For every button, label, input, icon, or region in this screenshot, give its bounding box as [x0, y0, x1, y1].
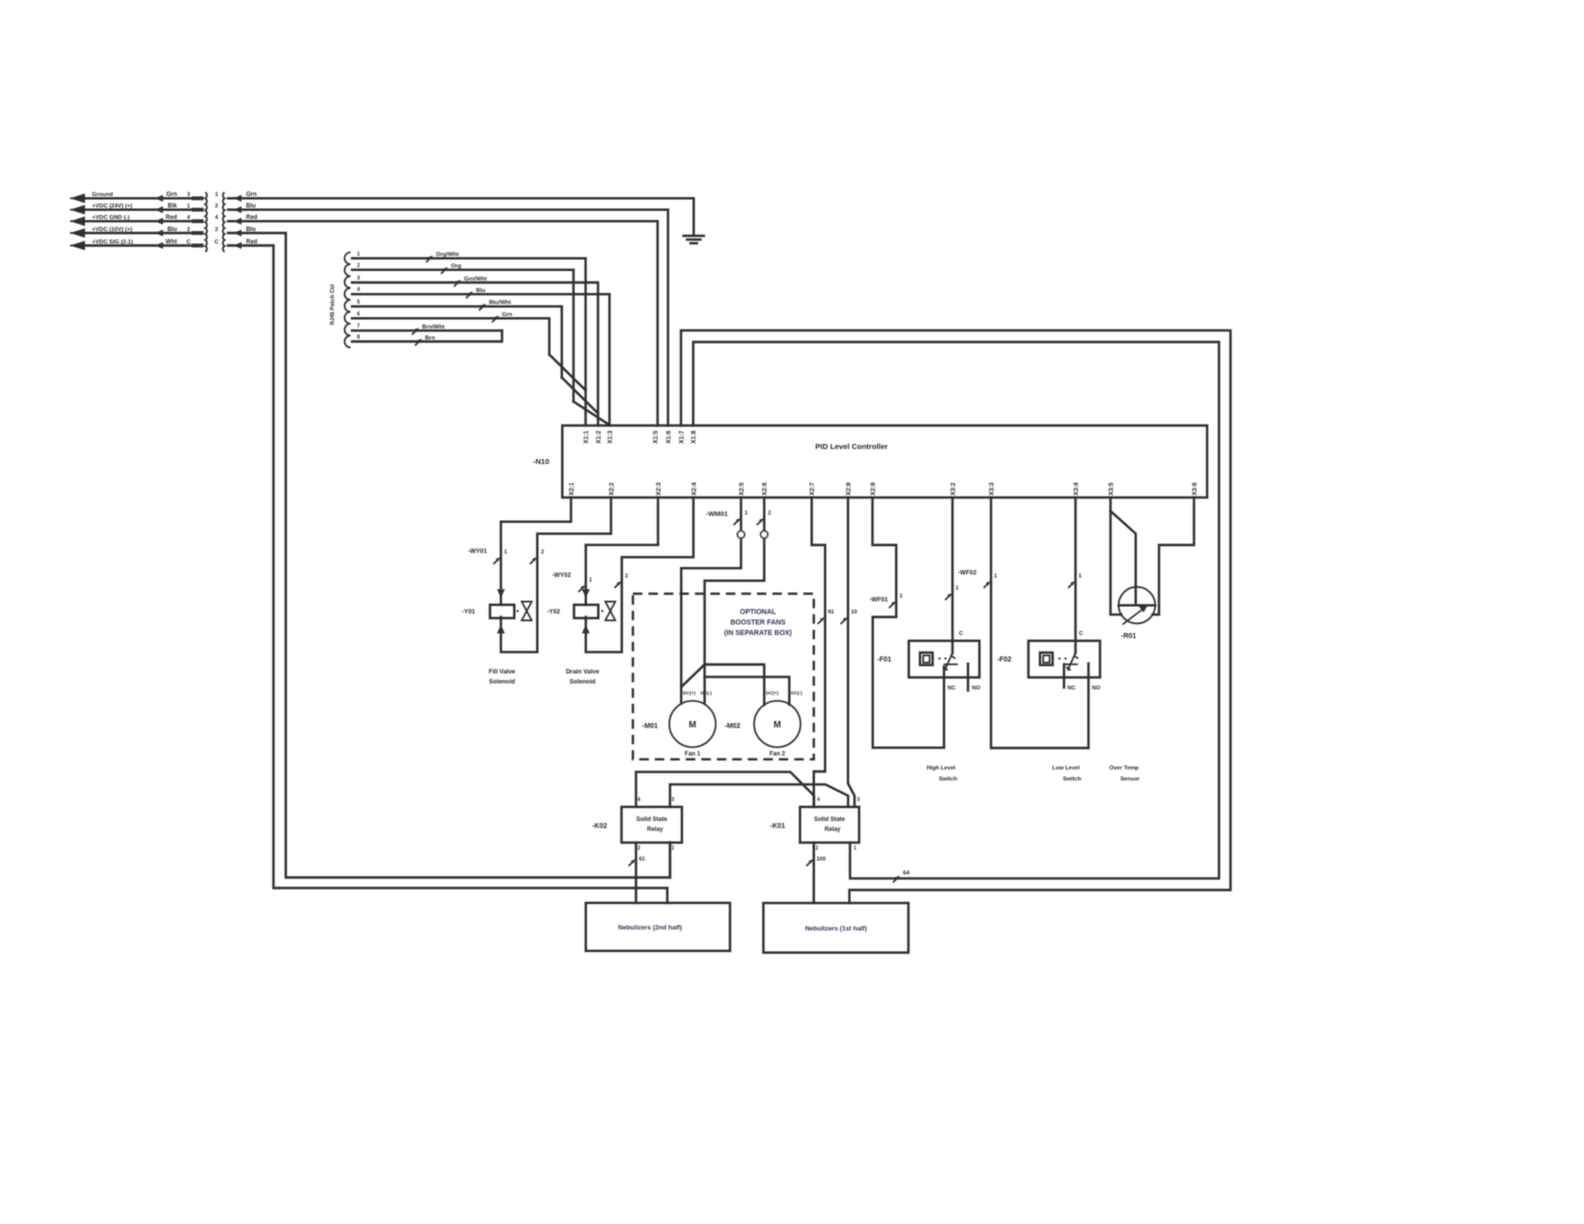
svg-text:X1:6: X1:6	[665, 430, 672, 444]
svg-text:1: 1	[994, 574, 997, 580]
node arrow row 2	[70, 205, 85, 215]
svg-text:OPTIONAL: OPTIONAL	[740, 609, 777, 616]
arrow into Y02 bottom	[582, 625, 590, 634]
float symbol F01	[920, 653, 933, 665]
svg-text:NO: NO	[1092, 686, 1101, 692]
wire +VDC SIG (2-1) left segment	[80, 244, 192, 246]
svg-text:Solenoid: Solenoid	[489, 679, 515, 686]
svg-text:5: 5	[357, 299, 360, 305]
svg-text:4: 4	[817, 797, 820, 803]
wire marker pin 7	[412, 328, 419, 335]
svg-text:Blu: Blu	[476, 288, 486, 294]
wire Y01 return to X2:2	[501, 498, 611, 653]
svg-text:Blu: Blu	[167, 227, 177, 233]
pin NO F01 stub	[967, 664, 969, 691]
svg-text:X3:3: X3:3	[988, 482, 995, 496]
svg-text:Relay: Relay	[824, 827, 841, 833]
node arrow row 4	[70, 228, 85, 238]
pin NC F02 stub	[1063, 664, 1065, 687]
wire marker 1 WY02	[578, 585, 585, 592]
svg-text:1: 1	[672, 846, 675, 852]
connector X9 shell	[345, 252, 351, 347]
svg-text:C: C	[959, 631, 963, 637]
svg-text:1: 1	[357, 251, 360, 257]
svg-text:X2:3: X2:3	[655, 482, 662, 496]
svg-text:X1:2: X1:2	[595, 430, 602, 444]
connector X0 contact bar row 2	[192, 208, 204, 212]
svg-text:X2:8: X2:8	[845, 482, 852, 496]
wire X3:6 to R01 right	[1153, 498, 1195, 615]
svg-text:C: C	[215, 239, 219, 245]
svg-text:X2:2: X2:2	[608, 482, 615, 496]
svg-text:C: C	[1079, 631, 1083, 637]
svg-text:(IN SEPARATE BOX): (IN SEPARATE BOX)	[724, 630, 792, 637]
svg-text:Blk: Blk	[168, 204, 178, 210]
wire X2:7 to K01 pin4	[812, 498, 825, 807]
wire direction marks row 1	[155, 195, 163, 202]
switch blade F02	[1068, 653, 1076, 671]
svg-text:3: 3	[857, 797, 860, 803]
wire marker 91	[818, 617, 825, 624]
wire direction marks row 4	[155, 230, 163, 237]
wire marker 2 WY02	[614, 581, 621, 588]
svg-text:Switch: Switch	[939, 777, 958, 783]
svg-text:Drain Valve: Drain Valve	[566, 669, 600, 676]
wire bus K02 pin4 to K01 pin4	[636, 772, 814, 807]
relay K01 box	[800, 807, 859, 843]
node arrow row 1	[70, 194, 85, 204]
wire marker 2 WM01	[757, 518, 764, 525]
svg-text:Fan 2: Fan 2	[769, 752, 785, 758]
svg-text:Solid State: Solid State	[814, 817, 846, 823]
wire bus K02 pin3 to K01 pin3	[670, 784, 848, 807]
valve symbol Y02	[601, 610, 603, 612]
svg-text:4: 4	[357, 287, 360, 293]
svg-text:X2:7: X2:7	[809, 482, 816, 496]
motor M02	[754, 701, 800, 747]
svg-text:-M01: -M01	[642, 723, 658, 730]
svg-text:-WY01: -WY01	[468, 548, 487, 555]
svg-text:1: 1	[589, 578, 592, 584]
float switch F02 box	[1028, 641, 1100, 678]
svg-text:-M02: -M02	[725, 723, 741, 730]
svg-text:X1:8: X1:8	[691, 430, 698, 444]
temp sensor R01	[1119, 587, 1156, 624]
wire Blu/Wht pin5	[352, 306, 562, 377]
svg-text:1: 1	[854, 846, 857, 852]
svg-text:3: 3	[357, 276, 360, 282]
svg-text:64: 64	[903, 871, 910, 877]
svg-text:X1:7: X1:7	[678, 430, 685, 444]
svg-text:+VDC (10V) (+): +VDC (10V) (+)	[92, 227, 132, 233]
node arrow row 3	[70, 216, 85, 226]
svg-text:X2:4: X2:4	[691, 482, 698, 496]
svg-text:X2:6: X2:6	[762, 482, 769, 496]
connector X0 contact bar row 3	[192, 219, 204, 223]
svg-text:1: 1	[504, 550, 507, 556]
svg-text:+VDC SIG (2-1): +VDC SIG (2-1)	[92, 239, 133, 245]
svg-text:1: 1	[1079, 574, 1082, 580]
svg-text:-WY02: -WY02	[552, 572, 571, 579]
svg-text:High Level: High Level	[927, 766, 956, 772]
wire marker 1 X3:3	[984, 581, 991, 588]
svg-text:2: 2	[768, 511, 771, 517]
svg-text:X3:2: X3:2	[950, 482, 957, 496]
booster fans enclosure dashed box	[633, 594, 814, 760]
svg-text:X2:9: X2:9	[870, 482, 877, 496]
svg-text:2: 2	[215, 227, 218, 233]
wire marker 1 WY01	[494, 557, 501, 564]
node arrow row 5	[70, 241, 85, 251]
ground symbol	[684, 235, 704, 237]
wire direction marks row 3	[155, 218, 163, 225]
arrow into Y01 top	[497, 589, 505, 598]
svg-text:PID Level Controller: PID Level Controller	[815, 442, 888, 451]
wire X3:3 to F02 NO	[991, 498, 1089, 749]
wire marker 1 X3:4	[1068, 581, 1075, 588]
svg-text:2: 2	[541, 550, 544, 556]
solenoid Y02 coil	[574, 605, 598, 618]
svg-text:Grn: Grn	[502, 312, 513, 318]
svg-text:X3:6: X3:6	[1191, 482, 1198, 496]
svg-text:-WM01: -WM01	[706, 511, 728, 518]
wire +VDC GND (-) left segment	[80, 220, 192, 222]
svg-text:4: 4	[638, 797, 641, 803]
wire crossover Grn to X1:1 column	[549, 355, 585, 391]
wire X3:4 to F02 C	[1074, 498, 1076, 653]
arrow into Y01 bottom	[497, 625, 505, 634]
wire Blu pin4 to X1:3	[352, 294, 610, 425]
bulkhead connector WM01 wire1	[737, 531, 744, 538]
wire X1:8 loop to K01 pin1	[693, 342, 1219, 878]
svg-text:Wht: Wht	[166, 239, 177, 245]
svg-text:Fill Valve: Fill Valve	[489, 669, 516, 676]
svg-text:Red: Red	[166, 215, 178, 221]
wire K02 pin1 stub	[669, 843, 671, 878]
svg-text:X1:1: X1:1	[583, 430, 590, 444]
wire marker pin 5	[479, 304, 486, 311]
wire X2:6 to fans DC- rail	[705, 498, 765, 704]
wire marker 2 WY01	[530, 557, 537, 564]
svg-text:X3:4: X3:4	[1073, 482, 1080, 496]
svg-text:2: 2	[625, 574, 628, 580]
svg-text:C: C	[187, 239, 191, 245]
svg-text:2: 2	[357, 263, 360, 269]
wire X3:5 branch to R01 top	[1111, 511, 1136, 605]
svg-text:Ground: Ground	[92, 192, 113, 198]
relay K02 box	[622, 807, 682, 843]
svg-text:1: 1	[215, 192, 218, 198]
svg-text:1: 1	[187, 204, 190, 210]
svg-text:8: 8	[357, 335, 360, 341]
svg-text:2: 2	[215, 204, 218, 210]
wire Grn/Wht pin3 to X1:2	[352, 283, 598, 426]
svg-text:NC: NC	[1068, 686, 1076, 692]
wire marker 1 WM01	[734, 518, 741, 525]
connector X0 female shell	[223, 192, 225, 251]
controller N10 box	[562, 426, 1207, 498]
wire marker pin 3	[454, 280, 461, 287]
svg-text:Org: Org	[451, 264, 462, 270]
wire Brn/Wht pin7 terminated	[352, 329, 502, 331]
svg-text:3: 3	[672, 797, 675, 803]
svg-text:DC(+): DC(+)	[683, 691, 696, 696]
svg-text:Grn/Wht: Grn/Wht	[464, 276, 487, 282]
wire X3:2 to F01 C	[951, 498, 953, 653]
wire marker pin 8	[415, 339, 422, 346]
wire marker pin 4	[466, 291, 473, 298]
wire direction marks row 2	[155, 206, 163, 213]
svg-text:1: 1	[745, 511, 748, 517]
wire Org pin2	[352, 270, 574, 402]
svg-text:DC(-): DC(-)	[791, 691, 803, 696]
svg-text:Fan 1: Fan 1	[685, 752, 701, 758]
float symbol F02	[1040, 653, 1053, 665]
arrow R01	[1123, 609, 1144, 625]
svg-text:-WF01: -WF01	[869, 597, 888, 604]
svg-text:-K01: -K01	[770, 823, 785, 830]
svg-text:100: 100	[817, 857, 826, 863]
wire DC+ crossover to M02	[681, 665, 764, 705]
wire crossover Blu/Wht to X1:2 column	[562, 378, 598, 414]
wire Ground left segment	[80, 197, 192, 199]
svg-text:M: M	[774, 720, 782, 730]
svg-text:-R01: -R01	[1121, 633, 1136, 640]
svg-text:1: 1	[900, 594, 903, 600]
svg-text:6: 6	[357, 311, 360, 317]
svg-text:+VDC (24V) (+): +VDC (24V) (+)	[92, 204, 132, 210]
wire K02 pin2 to nebulizer 2nd half	[635, 843, 637, 903]
connector X0 contact bar row 5	[192, 244, 204, 248]
wire +VDC (10V) (+) left segment	[80, 232, 192, 234]
svg-text:Org/Wht: Org/Wht	[436, 252, 459, 258]
wire Brn pin8 terminated	[352, 331, 502, 342]
svg-text:-Y02: -Y02	[547, 609, 561, 616]
connector X0 male shell	[205, 192, 207, 251]
svg-text:10: 10	[851, 610, 857, 616]
svg-text:X1:3: X1:3	[607, 430, 614, 444]
svg-text:RJ45 Patch Cbl: RJ45 Patch Cbl	[330, 284, 336, 325]
svg-text:+VDC GND (-): +VDC GND (-)	[92, 215, 130, 221]
svg-text:3: 3	[187, 192, 190, 198]
nebulizers 2nd half box	[586, 903, 730, 951]
svg-text:Solenoid: Solenoid	[569, 679, 595, 686]
svg-text:Solid State: Solid State	[636, 817, 668, 823]
wire row5 to nebulizer 2nd half	[228, 246, 667, 903]
wire crossover Org to X1:3 column	[574, 402, 610, 426]
connector X0 contact bar row 4	[192, 231, 204, 235]
wire X2:8 to K01 pin3	[848, 498, 855, 807]
wire marker 1 WF01	[889, 601, 896, 608]
svg-text:X1:5: X1:5	[652, 430, 659, 444]
wire marker 1 WF02	[945, 593, 952, 600]
nebulizers 1st half box	[763, 903, 908, 953]
svg-text:NC: NC	[948, 686, 956, 692]
svg-text:Nebulizers (2nd half): Nebulizers (2nd half)	[618, 925, 682, 932]
svg-text:-K02: -K02	[592, 823, 607, 830]
svg-text:-WF02: -WF02	[958, 570, 977, 577]
wire Grn pin6	[352, 318, 549, 354]
svg-text:DC(-): DC(-)	[701, 691, 713, 696]
wire Org/Wht pin1 to X1:1	[352, 258, 586, 425]
svg-text:2: 2	[816, 846, 819, 852]
wire X2:1 to Y01 coil	[501, 498, 571, 605]
svg-text:91: 91	[828, 610, 834, 616]
svg-text:Brn: Brn	[425, 335, 435, 341]
wire X3:5 to R01 left	[1111, 498, 1122, 615]
svg-text:-F02: -F02	[997, 657, 1012, 664]
wire marker pin 2	[441, 267, 448, 274]
wire row3 to X1:5	[228, 221, 658, 425]
svg-text:Nebulizers (1st half): Nebulizers (1st half)	[805, 926, 867, 933]
solenoid Y01 coil	[490, 605, 514, 618]
wire Y02 return to X2:4	[586, 498, 694, 653]
wire K01 pin2 to nebulizer 1st half	[813, 843, 815, 903]
svg-text:1: 1	[956, 586, 959, 592]
svg-text:M: M	[689, 720, 697, 730]
svg-text:61: 61	[639, 857, 645, 863]
connector X0 contact bar row 1	[192, 196, 204, 200]
wire +VDC (24V) (+) left segment	[80, 208, 192, 210]
wire row4 to K02 pin1	[228, 233, 670, 878]
svg-text:Grn: Grn	[166, 192, 177, 198]
svg-text:DC(+): DC(+)	[766, 691, 779, 696]
switch blade F01	[945, 653, 953, 671]
svg-text:X2:1: X2:1	[568, 482, 575, 496]
svg-text:-F01: -F01	[877, 657, 892, 664]
motor M01	[669, 701, 715, 747]
svg-text:Brn/Wht: Brn/Wht	[422, 324, 445, 330]
svg-text:2: 2	[187, 227, 190, 233]
wire marker 10	[841, 617, 848, 624]
svg-text:Relay: Relay	[647, 827, 664, 833]
wire X2:3 to Y02 coil	[586, 498, 658, 605]
wire marker 100	[806, 859, 813, 866]
wire X2:5 to fans DC+ rail	[681, 498, 741, 704]
wire marker 61	[629, 859, 636, 866]
wire marker 64	[893, 876, 900, 883]
svg-text:-Y01: -Y01	[462, 609, 476, 616]
wire marker pin 1	[426, 255, 433, 262]
wire X1:7 loop to nebulizer 1st half	[681, 330, 1231, 903]
wire Ground to earth	[228, 198, 694, 236]
svg-text:NO: NO	[972, 686, 981, 692]
svg-text:Over Temp: Over Temp	[1109, 766, 1139, 772]
bulkhead connector WM01 wire2	[761, 531, 768, 538]
float switch F01 box	[909, 641, 980, 678]
wire DC- branch to M02	[705, 677, 790, 705]
wire marker pin 6	[492, 316, 499, 323]
wire direction marks row 5	[155, 242, 163, 249]
svg-text:7: 7	[357, 324, 360, 330]
svg-text:Blu/Wht: Blu/Wht	[489, 300, 511, 306]
svg-text:Switch: Switch	[1063, 777, 1082, 783]
wire row2 to X1:6	[228, 210, 668, 426]
svg-text:2: 2	[638, 846, 641, 852]
valve symbol Y01	[516, 610, 518, 612]
svg-text:X3:5: X3:5	[1108, 482, 1115, 496]
svg-text:X2:5: X2:5	[738, 482, 745, 496]
svg-text:Low Level: Low Level	[1052, 766, 1080, 772]
wire X2:9 to F01 NC	[873, 498, 945, 748]
arrow into Y02 top	[582, 589, 590, 598]
svg-text:-N10: -N10	[533, 457, 549, 466]
svg-text:Sensor: Sensor	[1120, 777, 1140, 783]
svg-text:BOOSTER FANS: BOOSTER FANS	[730, 620, 786, 627]
